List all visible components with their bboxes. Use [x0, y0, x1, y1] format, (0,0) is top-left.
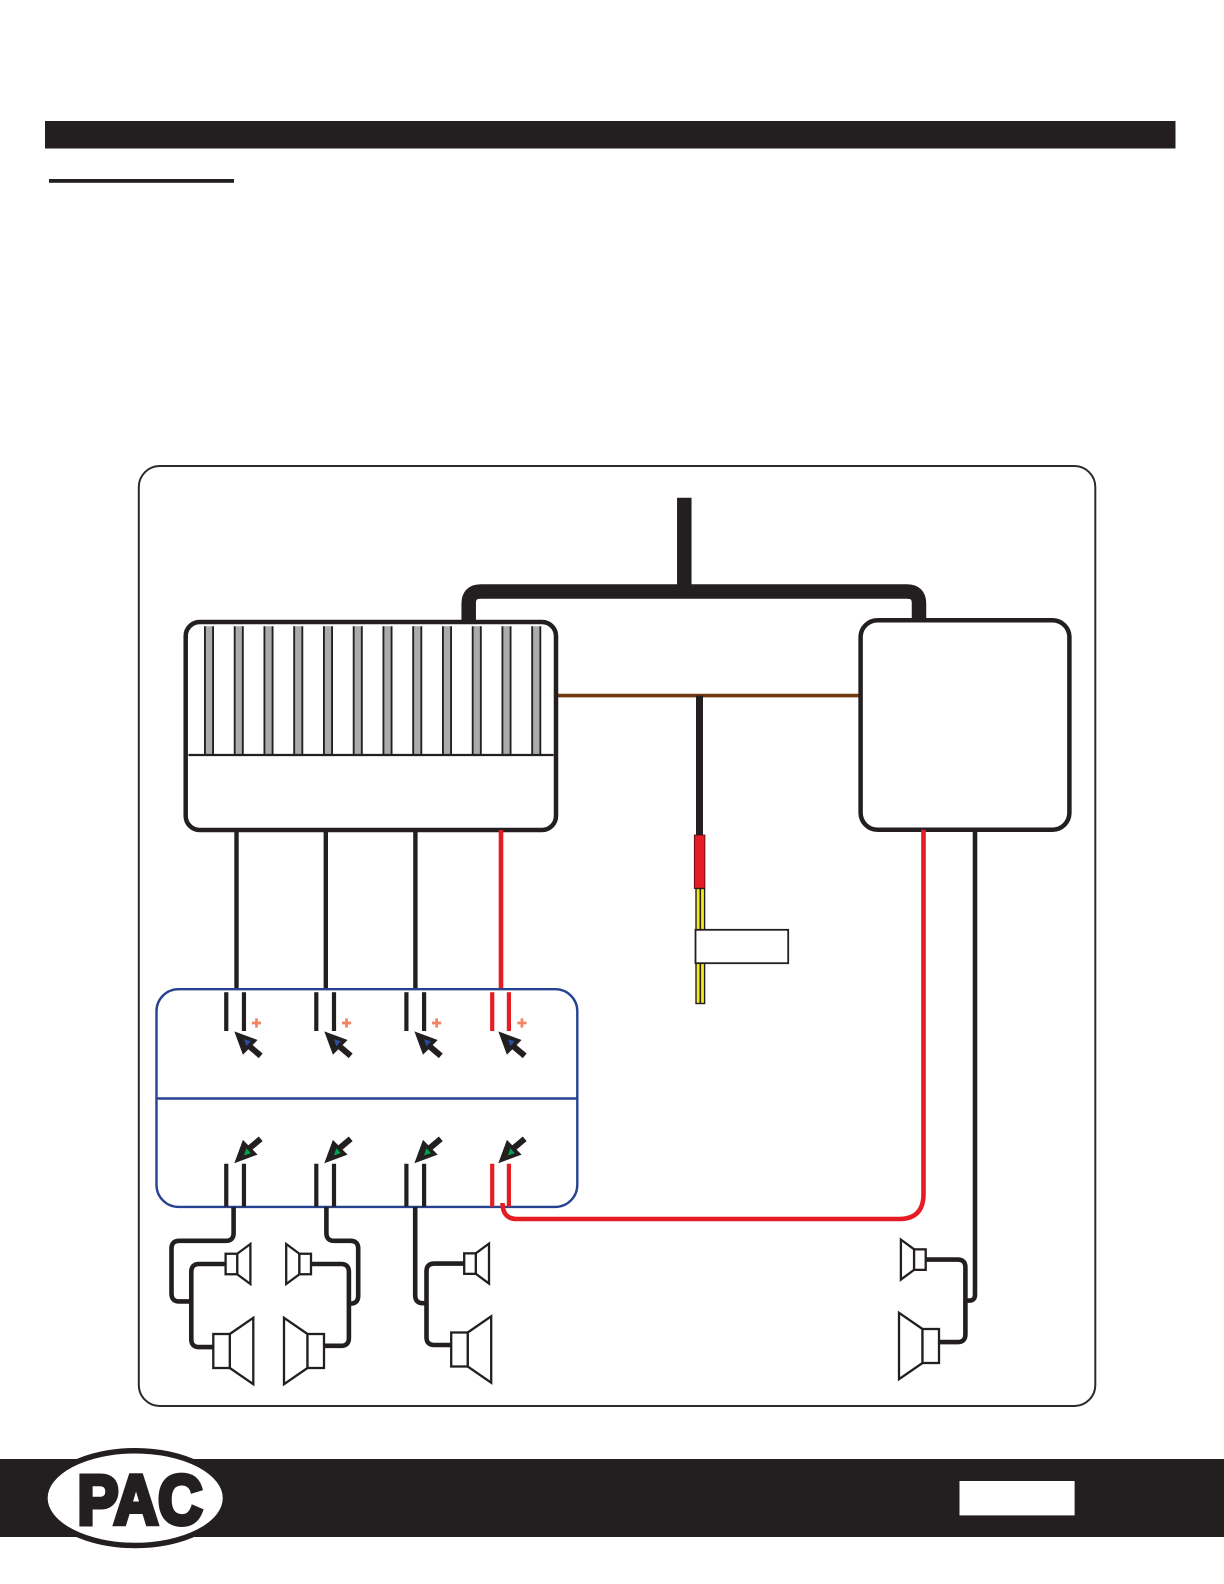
- front right speaker bracket: [311, 1264, 349, 1346]
- battery power wire bus: [469, 592, 919, 623]
- rear left woofer: [451, 1316, 491, 1382]
- cursor arrow top 4: [498, 1031, 524, 1055]
- harness top wire stubs pair 2: [316, 992, 334, 1031]
- front left tweeter: [226, 1244, 251, 1284]
- radio separator line: [189, 754, 554, 756]
- front right speaker feed wire: [326, 1207, 358, 1304]
- rear left speaker bracket: [427, 1264, 465, 1345]
- header title bar: [45, 121, 1176, 149]
- rear right speaker bracket: [926, 1260, 966, 1343]
- plus polarity label 2: [342, 1018, 351, 1027]
- harness bottom wire stubs pair 3: [406, 1164, 424, 1207]
- cursor arrow top 3: [414, 1031, 440, 1055]
- radio heatsink stripes: [205, 626, 540, 755]
- brown wire radio to module: [556, 694, 861, 698]
- heading underline: [49, 179, 234, 183]
- rear left speaker feed wire: [415, 1207, 426, 1303]
- front left speaker feed wire: [172, 1207, 234, 1302]
- front right woofer: [284, 1318, 324, 1384]
- battery power wire vertical: [677, 498, 692, 598]
- speaker wire 1 radio to harness: [234, 830, 238, 990]
- diagram outer border: [139, 466, 1096, 1406]
- rear left tweeter: [464, 1244, 489, 1284]
- cursor arrow top 1: [234, 1031, 260, 1055]
- rear right tweeter: [901, 1240, 926, 1280]
- harness connector box: [157, 989, 578, 1207]
- harness top wire stubs pair 1: [226, 992, 244, 1031]
- cursor arrow bottom 3: [414, 1139, 440, 1163]
- cursor arrow top 2: [324, 1031, 350, 1055]
- speaker wire 3 radio to harness: [413, 830, 417, 990]
- plus polarity label 1: [252, 1018, 261, 1027]
- rear right woofer: [899, 1313, 939, 1379]
- harness bottom wire stubs pair 2: [316, 1164, 334, 1207]
- red wire harness to module: [503, 830, 924, 1219]
- harness top wire stubs pair 3: [406, 992, 424, 1031]
- interface module box: [861, 620, 1070, 830]
- PAC logo: [45, 1451, 226, 1546]
- black accessory drop wire: [696, 696, 703, 837]
- plus polarity label 3: [432, 1018, 441, 1027]
- red speaker wire radio to harness: [499, 830, 504, 990]
- front left woofer: [213, 1318, 253, 1384]
- footer part number box: [960, 1481, 1075, 1515]
- radio head unit box: [186, 622, 556, 830]
- black wire module to rear right speakers: [965, 830, 975, 1301]
- front right tweeter: [286, 1244, 311, 1284]
- plus polarity label 4: [517, 1018, 526, 1027]
- svg-text:PAC: PAC: [78, 1461, 203, 1539]
- harness bottom wire stubs pair 1: [226, 1164, 244, 1207]
- harness top wire stubs pair 4: [492, 992, 509, 1031]
- harness bottom wire stubs pair 4: [492, 1164, 509, 1207]
- cursor arrow bottom 4: [498, 1139, 524, 1163]
- front left speaker bracket: [191, 1264, 225, 1347]
- yellow wire: [696, 889, 705, 1004]
- wire label box: [696, 930, 789, 963]
- red butt connector: [694, 835, 705, 889]
- harness divider line: [157, 1097, 578, 1099]
- speaker wire 2 radio to harness: [324, 830, 328, 990]
- cursor arrow bottom 1: [234, 1139, 260, 1163]
- footer bar: [0, 1459, 1224, 1537]
- cursor arrow bottom 2: [324, 1139, 350, 1163]
